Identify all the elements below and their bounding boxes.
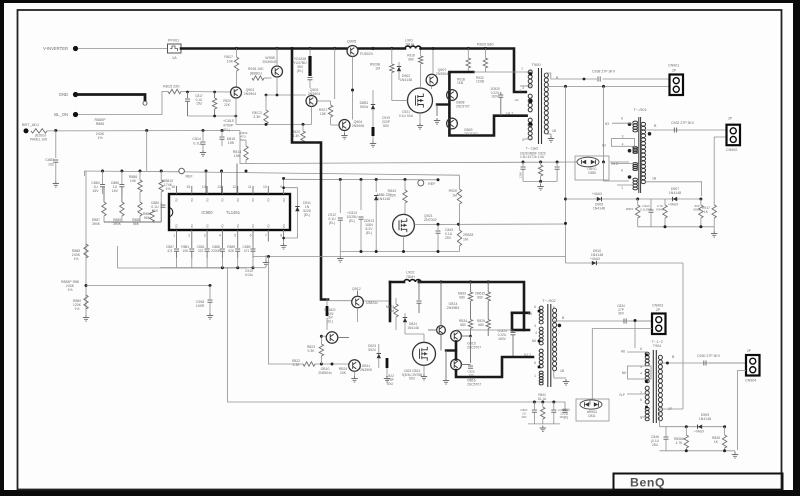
resistor R889b [138, 202, 142, 216]
wire [419, 113, 421, 123]
ground [734, 451, 736, 452]
wire y199 [566, 198, 701, 200]
capacitor C920b [417, 280, 420, 283]
svg-text:R920: R920 [449, 189, 457, 193]
transistor Q911 [349, 360, 361, 372]
wire T902 bottom [553, 371, 555, 378]
winding T901 primary [633, 121, 638, 132]
op-amp controller IC900 TL1451 [169, 194, 290, 230]
svg-text:+VAUX: +VAUX [694, 430, 705, 434]
svg-text:2N3906: 2N3906 [352, 124, 365, 128]
svg-text:3: 3 [522, 86, 524, 90]
svg-text:T~-/902: T~-/902 [542, 299, 555, 303]
svg-text:BRT_ADJ: BRT_ADJ [22, 123, 39, 127]
wire [334, 49, 336, 100]
capacitor C843 [457, 223, 460, 226]
svg-text:102: 102 [48, 163, 54, 167]
wire T900 pins [524, 138, 531, 140]
wire T903 pins [627, 351, 648, 353]
svg-text:R815 22K: R815 22K [163, 85, 180, 89]
ground [280, 243, 286, 249]
svg-text:1A: 1A [172, 56, 177, 60]
wire [713, 218, 715, 227]
ground [83, 315, 89, 321]
wire V1 [565, 86, 567, 263]
svg-text:680: 680 [477, 295, 483, 299]
REF terminal 2 [418, 180, 424, 186]
winding T900 secondary [544, 73, 548, 134]
svg-text:1%: 1% [74, 307, 79, 311]
core T900 [538, 68, 540, 144]
phase squares T902 [538, 310, 541, 313]
capacitor R881 [191, 242, 193, 249]
wire B T901 [645, 129, 727, 131]
wire pin12 column [236, 164, 238, 195]
transistor Q903 [306, 96, 317, 107]
svg-text:0.01u: 0.01u [245, 273, 253, 277]
wire emitter row [236, 123, 312, 125]
svg-text:1%: 1% [73, 257, 78, 261]
svg-text:1.6U 61T16 1.6U: 1.6U 61T16 1.6U [520, 155, 545, 159]
ground [370, 141, 376, 147]
svg-text:16V: 16V [112, 189, 119, 193]
svg-text:78UH: 78UH [406, 275, 415, 279]
svg-text:(EL): (EL) [349, 219, 355, 223]
wire Q912 links [357, 308, 359, 322]
wire thick collector Q916 [456, 357, 533, 377]
wire T903 pin6 up [634, 321, 636, 349]
pin 15 IC900 [191, 186, 193, 194]
svg-text:1: 1 [173, 234, 175, 238]
svg-text:7: 7 [265, 234, 267, 238]
capacitor C888 [221, 242, 223, 249]
wire BRT rail [47, 130, 240, 132]
svg-text:(EL): (EL) [223, 128, 230, 132]
resistor R888 [150, 210, 154, 222]
wire [403, 236, 405, 251]
svg-text:(EL): (EL) [297, 69, 303, 73]
capacitor C909 [209, 286, 211, 300]
svg-text:1KB: 1KB [457, 81, 463, 85]
phase squares T903 [645, 354, 648, 357]
wire [103, 216, 105, 222]
svg-text:3: 3 [534, 324, 536, 328]
wire long bottom rail [228, 268, 566, 409]
diode D824 [403, 318, 407, 322]
svg-text:ITX: ITX [236, 224, 240, 228]
inductor L901 [405, 46, 421, 48]
svg-text:2P: 2P [747, 349, 752, 353]
ground [563, 379, 569, 385]
svg-text:(EL): (EL) [327, 319, 333, 323]
wire column extensions [103, 187, 105, 202]
wire B T903 [660, 362, 746, 364]
svg-text:3: 3 [204, 234, 206, 238]
svg-text:1M: 1M [463, 238, 468, 242]
wire T901 bottom [645, 182, 702, 196]
svg-text:15K: 15K [234, 154, 241, 158]
phase dots T901 [628, 122, 632, 126]
svg-text:62K: 62K [228, 249, 235, 253]
svg-text:R843: R843 [388, 189, 396, 193]
wire thick L902 drop [389, 282, 392, 321]
svg-text:11: 11 [248, 185, 252, 189]
svg-text:2N3904: 2N3904 [436, 72, 449, 76]
svg-text:ITX: ITX [205, 224, 209, 228]
svg-text:1N4148: 1N4148 [593, 207, 605, 211]
svg-text:2P: 2P [672, 69, 677, 73]
wire [589, 400, 591, 405]
svg-text:BL_ON: BL_ON [54, 112, 68, 117]
svg-text:1N4148: 1N4148 [699, 417, 711, 421]
transistor Q914 [437, 326, 446, 335]
capacitor C883 [55, 131, 57, 159]
svg-text:8: 8 [280, 234, 282, 238]
resistor R917t [467, 49, 469, 59]
winding T901 primary [633, 178, 638, 190]
svg-text:+VAUX: +VAUX [592, 192, 603, 196]
wire [391, 73, 393, 101]
svg-text:22K: 22K [224, 103, 231, 107]
winding T903 primary [645, 352, 649, 366]
pin 1 IC900 [176, 230, 178, 242]
resistor R931 [484, 49, 486, 59]
svg-text:1K: 1K [704, 210, 709, 214]
wire thick base stub Q908 [437, 103, 449, 105]
svg-text:C883: C883 [45, 158, 54, 162]
wire to ground Q916 [445, 351, 447, 379]
svg-text:12: 12 [232, 185, 236, 189]
transistor Q912 [352, 296, 364, 308]
svg-text:160V: 160V [498, 337, 507, 341]
wire pin9 VCC loop [284, 179, 298, 244]
resistor BRT pot [31, 129, 47, 133]
ground [200, 150, 206, 156]
svg-text:U5824x: U5824x [366, 301, 378, 305]
svg-text:2P: 2P [656, 308, 661, 312]
svg-text:680: 680 [408, 57, 414, 61]
svg-text:471: 471 [167, 249, 173, 253]
svg-text:2N3905: 2N3905 [360, 368, 372, 372]
wire [473, 71, 531, 73]
svg-text:+C815: +C815 [223, 119, 234, 123]
ground [339, 252, 341, 257]
svg-text:Q905: Q905 [347, 40, 356, 44]
wire branch to T901 pin1 [604, 162, 630, 181]
svg-text:4: 4 [519, 89, 521, 93]
capacitor C814 [202, 131, 204, 142]
capacitor C817 [187, 92, 189, 98]
svg-text:(EL): (EL) [366, 231, 372, 235]
pin 16 IC900 [176, 186, 178, 194]
wire thick Q915-Q916 [455, 342, 458, 360]
svg-text:10: 10 [263, 185, 267, 189]
svg-text:1: 1 [534, 374, 536, 378]
svg-text:390K: 390K [92, 222, 101, 226]
svg-text:TL1451: TL1451 [226, 210, 241, 215]
winding T903 secondary [658, 355, 662, 421]
pin 14 IC900 [206, 186, 208, 194]
wire thick driver block [449, 72, 526, 136]
transistor Q916 [451, 359, 462, 370]
wire [86, 285, 210, 287]
svg-text:FU5024: FU5024 [360, 52, 373, 56]
svg-text:1M: 1M [452, 194, 457, 198]
svg-text:1N4148: 1N4148 [407, 326, 419, 330]
svg-text:15K: 15K [320, 112, 327, 116]
svg-text:ITX: ITX [190, 198, 194, 202]
capacitor C813 electrolytic [360, 180, 362, 210]
wire rail B [284, 178, 438, 181]
transistor Q902 mosfet [408, 88, 433, 113]
resistor R885b [120, 202, 124, 216]
svg-text:15K: 15K [228, 141, 235, 145]
svg-text:D811: D811 [588, 414, 596, 418]
ground [443, 378, 449, 384]
svg-text:1%: 1% [67, 288, 72, 292]
ground [540, 181, 542, 184]
winding T903 primary [645, 386, 649, 404]
resistor R920c [212, 98, 216, 109]
svg-text:9.3K: 9.3K [308, 349, 316, 353]
core T901 [638, 117, 640, 193]
svg-text:51.1A: 51.1A [538, 397, 547, 401]
jumper W903 D905 pair [575, 156, 609, 180]
wire [146, 131, 148, 172]
zener ZD913 [375, 180, 377, 192]
capacitor C828 [522, 162, 524, 166]
svg-text:1B: 1B [560, 369, 565, 373]
svg-text:0.1U: 0.1U [193, 142, 201, 146]
svg-text:1: 1 [621, 186, 623, 190]
svg-text:4.7K: 4.7K [676, 441, 684, 445]
svg-text:ITX: ITX [282, 198, 286, 202]
REF terminal [179, 168, 185, 174]
svg-text:IC900: IC900 [201, 210, 213, 215]
svg-text:592A: 592A [360, 105, 369, 109]
winding T901 primary [633, 147, 638, 154]
resistor R886 [139, 171, 141, 180]
wire bottom rail [660, 450, 735, 452]
svg-text:2N3904x: 2N3904x [318, 371, 332, 375]
winding T902 primary [539, 371, 543, 385]
svg-text:ITX: ITX [282, 224, 286, 228]
svg-text:ITX: ITX [205, 198, 209, 202]
svg-text:N6: N6 [532, 339, 536, 343]
svg-text:(B88GJ: (B88GJ [250, 72, 262, 76]
pin 2 IC900 [191, 230, 193, 242]
svg-text:680: 680 [478, 323, 484, 327]
svg-text:1M: 1M [390, 309, 395, 313]
pin 8 IC900 [283, 230, 285, 242]
wire [321, 335, 326, 337]
transistor Q908b [272, 66, 283, 77]
svg-text:5924: 5924 [368, 348, 376, 352]
capacitor R889 [237, 242, 239, 249]
svg-text:4: 4 [622, 142, 624, 146]
svg-text:ITX: ITX [267, 224, 271, 228]
svg-text:2R828: 2R828 [463, 233, 473, 237]
phase dots T900 [529, 72, 532, 75]
svg-text:ITX: ITX [251, 224, 255, 228]
svg-text:6: 6 [534, 305, 536, 309]
svg-text:N1 2: N1 2 [524, 353, 531, 357]
winding T900 primary [528, 70, 532, 88]
wire 1P row [659, 409, 661, 421]
wire B node upper [546, 73, 598, 79]
svg-text:16: 16 [171, 185, 175, 189]
winding T901 primary [633, 163, 638, 171]
svg-text:ITX: ITX [190, 224, 194, 228]
winding T902 primary [539, 349, 543, 368]
wire rail under IC [160, 267, 253, 269]
svg-text:78UH: 78UH [405, 42, 415, 46]
svg-text:13: 13 [217, 185, 221, 189]
wire [328, 300, 352, 302]
ground [341, 133, 347, 139]
svg-text:16V: 16V [92, 189, 99, 193]
svg-text:4: 4 [640, 372, 642, 376]
svg-text:14: 14 [202, 185, 206, 189]
wire [423, 334, 425, 342]
svg-text:V-INVERTER: V-INVERTER [43, 46, 68, 51]
wire CN902 pin2 return [714, 137, 726, 205]
svg-text:CN904: CN904 [745, 379, 756, 383]
svg-text:390K: 390K [113, 222, 122, 226]
svg-text:2SC5707: 2SC5707 [467, 383, 481, 387]
wire rail A right corner [459, 175, 461, 189]
svg-text:56K: 56K [133, 222, 140, 226]
svg-text:6: 6 [621, 117, 623, 121]
core T902 [547, 304, 549, 387]
ground [713, 227, 715, 231]
ground [548, 136, 554, 142]
svg-text:9: 9 [280, 185, 282, 189]
svg-text:25V: 25V [445, 236, 452, 240]
wire [240, 131, 246, 164]
svg-text:10K: 10K [227, 60, 234, 64]
svg-text:222: 222 [198, 249, 204, 253]
svg-text:PANEL 10K: PANEL 10K [30, 138, 48, 142]
pin 11 IC900 [252, 186, 254, 194]
svg-text:3.3K: 3.3K [293, 363, 301, 367]
wire pin13 column [220, 170, 223, 173]
svg-text:CN902: CN902 [726, 148, 737, 152]
winding T902 primary [539, 306, 543, 324]
transistor Q905 [347, 46, 358, 57]
ground [434, 118, 440, 124]
pin 4 IC900 [221, 230, 223, 242]
svg-text:50U: 50U [387, 382, 394, 386]
pin 13 IC900 [221, 186, 223, 194]
svg-text:CN901: CN901 [668, 64, 679, 68]
wire CN904 return [738, 371, 747, 451]
capacitor C930c [563, 410, 568, 412]
svg-text:Q912: Q912 [352, 287, 361, 291]
svg-text:16V: 16V [152, 209, 159, 213]
wire [181, 91, 231, 94]
title block [614, 474, 783, 491]
svg-text:3.3K: 3.3K [253, 115, 261, 119]
svg-text:2N39B4: 2N39B4 [447, 306, 460, 310]
pin 3 IC900 [206, 230, 208, 242]
svg-text:2SC5707: 2SC5707 [464, 132, 478, 136]
svg-text:1K: 1K [714, 440, 719, 444]
svg-text:4: 4 [219, 234, 221, 238]
capacitor C825 [468, 366, 473, 368]
resistor R8810 [160, 171, 162, 180]
ground [384, 376, 390, 382]
capacitor C887 [176, 242, 178, 249]
svg-text:T900: T900 [531, 62, 541, 67]
svg-text:2SC5707: 2SC5707 [467, 346, 481, 350]
winding T900 primary [528, 118, 532, 140]
svg-text:0.1U 50U: 0.1U 50U [399, 114, 414, 118]
wire [139, 192, 141, 202]
svg-text:L902: L902 [406, 271, 414, 275]
ground [417, 123, 423, 129]
svg-text:2N3904D: 2N3904D [262, 60, 278, 64]
ground [421, 374, 427, 380]
wire T901 pins [612, 122, 634, 124]
svg-text:16V: 16V [521, 415, 526, 419]
svg-text:10K: 10K [130, 179, 137, 183]
ground [540, 426, 546, 432]
wire rail A verticals [84, 171, 86, 176]
svg-text:REF: REF [186, 175, 194, 179]
svg-text:PF901: PF901 [168, 39, 179, 43]
svg-text:56K: 56K [144, 216, 151, 220]
wire left column [85, 171, 87, 256]
inductor L902 [404, 280, 421, 282]
capacitor C886 [121, 171, 123, 184]
pin 12 IC900 [237, 186, 239, 194]
wire Q907 column [432, 49, 434, 75]
capacitor C912 [339, 180, 341, 214]
pin 7 IC900 [267, 230, 269, 242]
wire rail L1 [253, 256, 566, 258]
wire 1B exit [546, 133, 552, 135]
wire thick stub [446, 349, 456, 351]
svg-text:H1 7: H1 7 [506, 112, 513, 116]
wire rail A [85, 170, 179, 173]
transistor Q908 [447, 90, 458, 101]
svg-text:T904: T904 [653, 344, 661, 348]
svg-text:50U: 50U [409, 377, 416, 381]
svg-text:680: 680 [460, 323, 466, 327]
svg-text:2N3904: 2N3904 [308, 92, 321, 96]
wire [436, 105, 438, 117]
wire rail L1 left end [252, 242, 254, 257]
svg-text:C930 27P 3KV: C930 27P 3KV [697, 354, 721, 358]
svg-text:1N4148: 1N4148 [378, 197, 390, 201]
svg-text:GND: GND [59, 92, 68, 97]
svg-text:22K: 22K [390, 194, 397, 198]
ground [53, 181, 59, 187]
svg-text:H2: H2 [602, 144, 606, 148]
wire thick GND [78, 95, 145, 101]
wire rail 162 [246, 162, 577, 164]
svg-text:T~-1(w2: T~-1(w2 [526, 147, 538, 151]
transistor Q913 mosfet [413, 342, 436, 365]
pin 5 IC900 [237, 230, 239, 242]
svg-text:N6: N6 [622, 371, 626, 375]
svg-text:1N4148: 1N4148 [400, 78, 412, 82]
svg-text:6: 6 [640, 347, 642, 351]
capacitor C881 [206, 242, 208, 249]
winding T900 primary [528, 94, 532, 112]
svg-text:1N4148: 1N4148 [669, 191, 681, 195]
